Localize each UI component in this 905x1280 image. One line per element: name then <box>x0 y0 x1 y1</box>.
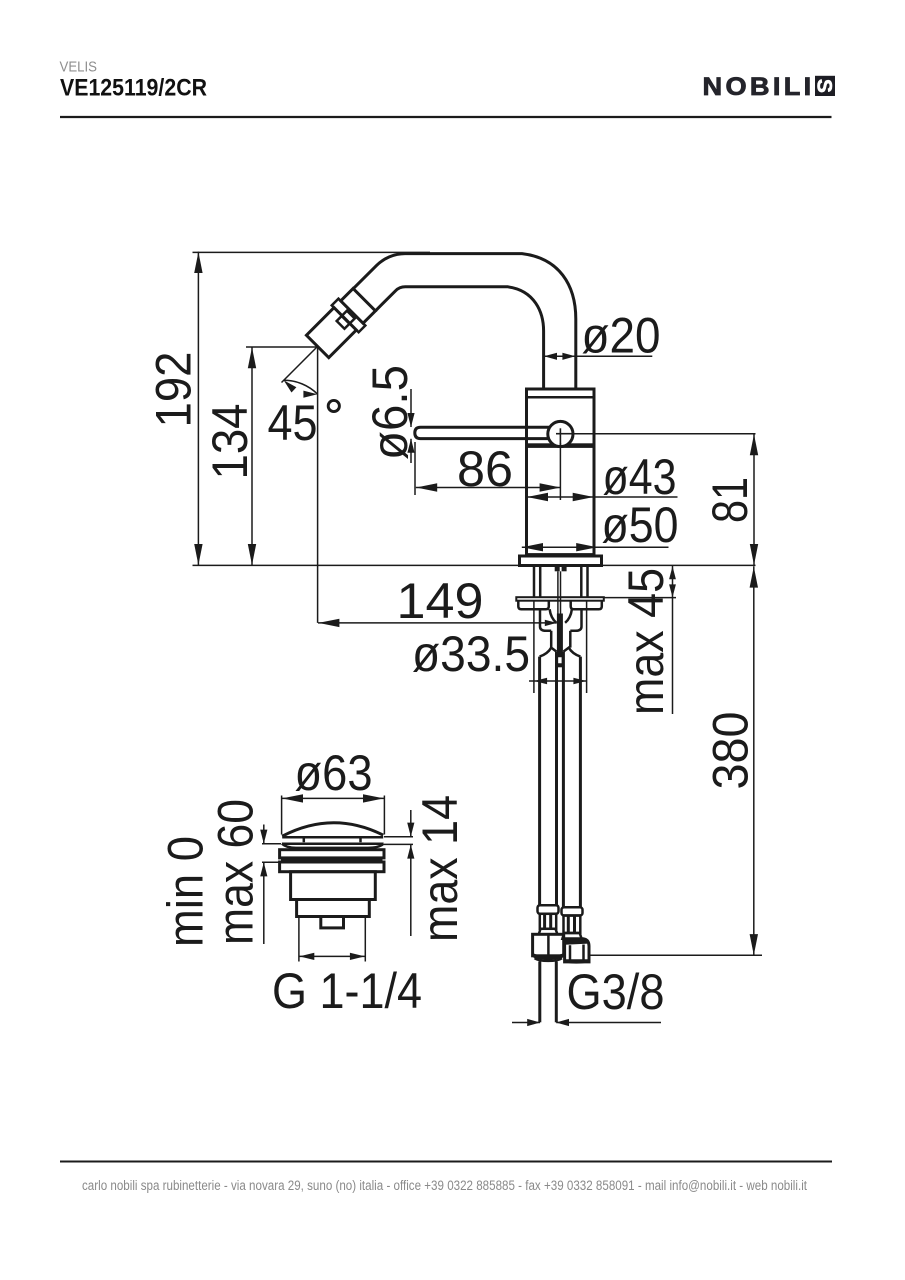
dim dia50 line <box>522 546 669 548</box>
dim max 14 label <box>412 795 468 942</box>
dim max14 line <box>410 810 412 837</box>
svg-text:ø63: ø63 <box>295 745 373 801</box>
svg-text:ø50: ø50 <box>602 497 679 553</box>
45 deg reference vertical <box>317 347 319 623</box>
washer right nut tab <box>571 601 602 610</box>
mixer body cylinder <box>527 389 595 555</box>
svg-text:81: 81 <box>702 477 758 523</box>
pop-up rod upper <box>557 571 559 614</box>
right elbow nut <box>565 939 589 962</box>
svg-text:VELIS: VELIS <box>60 60 98 76</box>
G3/8 outlet pipe <box>538 962 541 1023</box>
head collar band <box>341 289 376 324</box>
dim 86 ext line at lever end <box>414 442 416 495</box>
right nut bottom band <box>564 959 589 963</box>
dim 192 extension line top <box>193 251 431 253</box>
shank studs <box>539 566 542 598</box>
dim 380 line <box>753 566 755 955</box>
drain lower flange <box>280 862 384 872</box>
dim 149 line <box>318 622 557 624</box>
head ring <box>332 299 366 333</box>
deck reference line <box>193 564 520 566</box>
right hose flare <box>562 933 581 939</box>
dim 134 extension line <box>246 346 318 348</box>
svg-text:max 45: max 45 <box>618 568 674 715</box>
dim dia63 line <box>282 797 385 799</box>
ball centerline vertical <box>559 443 561 500</box>
footer rule <box>60 1161 832 1163</box>
upper cone left <box>540 609 556 631</box>
left nut bottom rim <box>532 953 564 961</box>
svg-text:NOBILI: NOBILI <box>703 74 815 101</box>
drain rubber seal band <box>281 858 383 861</box>
right hose collar <box>562 907 583 915</box>
dim dia6.5 arrows <box>410 389 412 427</box>
dim G1-1/4 line <box>299 955 365 957</box>
left hex nut G3/8 <box>533 934 564 956</box>
lever handle <box>415 427 549 438</box>
dim min 0 label <box>158 836 214 947</box>
dim 192 line <box>197 252 199 566</box>
dim dia63 ext lines <box>281 796 283 835</box>
header rule <box>60 116 832 118</box>
dim dia43 line <box>527 496 678 498</box>
ext lines to drain <box>262 843 281 845</box>
svg-text:86: 86 <box>457 441 513 497</box>
dim dia33.5 line <box>529 680 587 682</box>
nut bottom extension line <box>590 954 762 956</box>
svg-text:max 60: max 60 <box>208 799 264 945</box>
svg-text:G3/8: G3/8 <box>567 964 665 1020</box>
drain bottom tab <box>321 917 344 928</box>
washer left nut tab <box>518 601 549 610</box>
svg-text:192: 192 <box>146 352 202 428</box>
lower flare left <box>540 648 557 657</box>
drain body lower <box>297 900 370 917</box>
left hose <box>538 657 541 906</box>
45 deg axis extension line <box>282 346 318 382</box>
svg-text:max 14: max 14 <box>412 795 468 942</box>
45 deg arc <box>284 380 318 394</box>
base flange plate <box>520 556 602 566</box>
svg-text:G 1-1/4: G 1-1/4 <box>272 963 422 1019</box>
dim 192 label <box>146 352 202 428</box>
svg-text:VE125119/2CR: VE125119/2CR <box>60 74 207 101</box>
svg-text:ø6.5: ø6.5 <box>362 365 418 460</box>
dim G3/8 line <box>512 1022 540 1024</box>
dim G1-1/4 ext lines <box>298 917 300 962</box>
svg-text:134: 134 <box>202 404 258 480</box>
drain body upper <box>291 872 376 900</box>
dim 134 label <box>202 404 258 480</box>
shank walls <box>533 566 536 598</box>
spray head group at 45 degrees <box>304 286 378 360</box>
dim dia6.5 label <box>362 365 418 460</box>
right hose knurl <box>564 916 581 934</box>
spout tube inner edge <box>375 287 543 390</box>
svg-text:ø20: ø20 <box>582 308 661 364</box>
lever ball joint <box>548 421 573 446</box>
spray regulator clip detail <box>337 311 355 329</box>
drain top flange <box>280 850 384 858</box>
rod clamp tabs <box>555 567 560 571</box>
body collar thick band <box>527 443 595 448</box>
svg-text:ø33.5: ø33.5 <box>412 626 530 682</box>
dim max45 line <box>672 566 674 714</box>
dim 81 label <box>702 477 758 523</box>
dim dia33.5 ext lines <box>533 601 535 693</box>
dim 86 line <box>416 487 561 489</box>
svg-text:min 0: min 0 <box>158 836 214 947</box>
drain cap stem ticks <box>303 838 306 842</box>
left hose knurl <box>540 914 556 929</box>
svg-text:45: 45 <box>268 395 318 451</box>
upper cone right <box>565 609 581 631</box>
drain cap dome <box>282 823 383 836</box>
drain gasket <box>282 844 384 848</box>
dim min0/max60 line <box>263 825 265 844</box>
body top cap line <box>527 396 595 399</box>
dim max 60 label <box>208 799 264 945</box>
dim 134 line <box>251 347 253 565</box>
svg-text:carlo nobili spa rubinetterie: carlo nobili spa rubinetterie - via nova… <box>82 1178 807 1193</box>
washer extension line <box>604 597 676 599</box>
spout tube outer edge <box>353 254 576 390</box>
left hose flare <box>539 929 558 935</box>
left hose collar <box>538 905 559 914</box>
dim dia20 line <box>544 355 653 357</box>
lower flare right <box>563 648 580 657</box>
neck walls <box>550 631 553 648</box>
right hose <box>579 657 582 908</box>
svg-text:S: S <box>813 79 836 93</box>
dim max45 label <box>618 568 674 715</box>
svg-text:149: 149 <box>397 573 484 629</box>
dim 380 label <box>703 712 759 790</box>
pop-up rod lower <box>557 614 563 657</box>
aerator end body <box>306 308 356 358</box>
ball center extension line <box>567 433 756 435</box>
mounting washer plate <box>516 597 604 601</box>
dim max14 ext lines <box>384 836 413 838</box>
dim 81 line <box>753 434 755 565</box>
NOBILI logo square with S mark <box>815 76 835 96</box>
svg-text:380: 380 <box>703 712 759 790</box>
